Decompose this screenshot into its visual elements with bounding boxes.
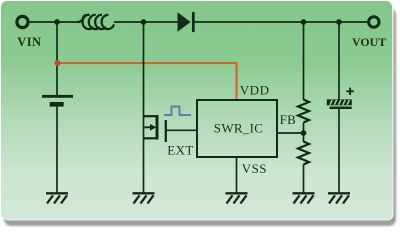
wire R1 to FB node: [303, 123, 305, 143]
svg-text:VDD: VDD: [240, 82, 270, 97]
wire VSS to ground: [236, 157, 238, 193]
capacitor C1 polarized: [327, 99, 352, 109]
svg-text:VSS: VSS: [242, 161, 267, 176]
resistor R2: [298, 142, 309, 165]
wire rail to R1: [303, 22, 305, 100]
terminal VIN: [17, 16, 28, 27]
node junction VIN/battery: [54, 19, 60, 25]
IC U1 SWR_IC: [197, 100, 277, 157]
wire rail to capacitor: [338, 22, 340, 100]
inductor L: [78, 15, 115, 29]
label capacitor plus: [346, 88, 353, 95]
wire switch node drop: [143, 22, 145, 193]
battery BT: [42, 96, 73, 104]
transistor Q1 MOSFET: [144, 115, 166, 142]
ground VSS: [226, 193, 248, 203]
resistor R1: [298, 100, 309, 123]
node junction feedback divider: [301, 19, 307, 25]
ground capacitor: [328, 193, 350, 203]
wire VDD supply (orange): [57, 63, 237, 99]
ground MOSFET source: [133, 193, 155, 203]
svg-text:EXT: EXT: [167, 143, 193, 158]
wire R2 to ground: [303, 165, 305, 194]
wire rail diode to VOUT: [195, 21, 368, 23]
diode D: [178, 12, 194, 32]
svg-text:SWR_IC: SWR_IC: [214, 120, 263, 135]
node junction VDD tap (red): [55, 60, 61, 66]
wire rail inductor to diode: [114, 21, 178, 23]
svg-text:FB: FB: [280, 112, 297, 127]
node junction FB: [301, 130, 307, 136]
wire capacitor to ground: [338, 109, 340, 193]
terminal VOUT: [369, 17, 379, 27]
svg-text:VOUT: VOUT: [352, 35, 386, 49]
wire gate to EXT pin: [166, 129, 197, 131]
node junction output capacitor: [336, 19, 342, 25]
node junction switch column: [141, 19, 147, 25]
wire battery to ground: [56, 107, 58, 194]
ground battery: [46, 193, 68, 203]
wire FB pin to divider: [277, 132, 304, 134]
pulse waveform symbol: [164, 107, 191, 116]
wire rail VIN to inductor: [30, 21, 78, 23]
svg-text:VIN: VIN: [17, 35, 41, 49]
wire battery drop: [56, 22, 58, 95]
ground R2: [293, 193, 315, 203]
